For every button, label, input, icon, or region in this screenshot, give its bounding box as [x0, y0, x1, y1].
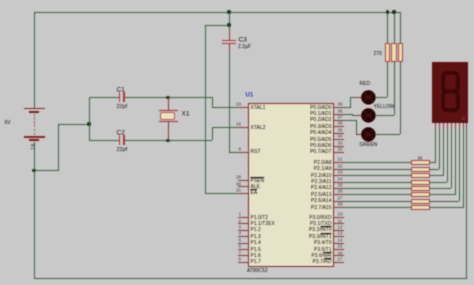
wire battery bottom [34, 142, 35, 171]
label YELLOW [374, 104, 395, 110]
junction R2 rail [392, 10, 395, 13]
label GREEN [360, 142, 378, 148]
LED lead stubs [0, 0, 1, 1]
label 6V [5, 120, 11, 126]
resistor R2 270 [391, 43, 396, 62]
wire battery to cap midpoint [34, 170, 58, 171]
label C2 value 22pf [117, 146, 128, 153]
junction cap midpoint [87, 122, 90, 125]
resistor RP4 1k [411, 180, 429, 185]
7-segment display pins [0, 0, 1, 1]
wire rail to R2 [394, 12, 395, 43]
label 270 [374, 51, 382, 57]
junction battery bottom [32, 169, 35, 172]
resistor RP7 1k [411, 199, 429, 204]
resistor RP3 1k [411, 173, 429, 178]
op-amp U1 AT89C52 body [248, 103, 334, 268]
resistor RP2 1k [411, 167, 429, 172]
junction crystal bottom [166, 139, 169, 142]
capacitor C3 [0, 0, 1, 1]
resistor RP8 1k [411, 205, 429, 210]
label C3 [239, 37, 247, 45]
U1 left pin stubs [0, 0, 1, 1]
wire C1 right [125, 97, 168, 98]
wire ground left rail [34, 171, 35, 278]
resistor RP5 1k [411, 186, 429, 191]
wire P0.2 to green LED [344, 120, 357, 121]
label AT89C52 [247, 268, 268, 274]
crystal X1 [0, 0, 1, 1]
wire segment staircase [0, 0, 1, 1]
resistor R3 270 [398, 43, 403, 62]
wire C1-C2 left vertical [89, 97, 90, 140]
U1 left pin numbers [0, 0, 1, 1]
junction C3 rail [227, 10, 230, 13]
wire C1 left [89, 97, 119, 98]
junction crystal top [166, 96, 169, 99]
label 1k [418, 155, 423, 161]
LED D2 YELLOW [361, 108, 376, 123]
wire C2 left [89, 140, 119, 141]
wire yellow LED to R2 [375, 115, 394, 116]
label C3 value [238, 44, 251, 50]
wire XTAL1 net [168, 97, 212, 98]
wire red LED to R1 [375, 97, 387, 98]
wire EA/VCC net [205, 25, 229, 26]
wire P2 bus to resistor pack [0, 0, 1, 1]
LED D1 RED [361, 90, 376, 105]
capacitor C2 [0, 0, 1, 1]
label C1 value 22pf [117, 104, 128, 111]
capacitor C1 [0, 0, 1, 1]
wire P0.0 to red LED [344, 107, 350, 108]
wire rail to R3 [400, 12, 401, 43]
junction R1 rail [386, 10, 389, 13]
wire P0.1 to yellow LED [344, 114, 352, 115]
wire VCC top rail [34, 12, 401, 13]
U1 right pin labels [0, 0, 1, 1]
U1 left pin labels [0, 0, 1, 1]
wire green LED to R3 [375, 134, 400, 135]
resistor RP6 1k [411, 192, 429, 197]
resistor RP1 1k [411, 160, 429, 165]
U1 right pin stubs [0, 0, 1, 1]
wire battery top to rail [34, 12, 35, 108]
U1 right pin numbers [0, 0, 1, 1]
wire common cathode to ground [466, 128, 467, 278]
resistor R1 270 [385, 43, 390, 62]
7-segment display body [432, 62, 469, 123]
label X1 [182, 111, 190, 119]
label U1 [246, 92, 254, 99]
junction EA branch [227, 23, 230, 26]
battery BAT 6V [0, 0, 1, 1]
wire rail to R1 [387, 12, 388, 43]
wire C3 vertical / RST net [229, 12, 230, 39]
label battery name rotated [29, 144, 35, 151]
wire XTAL2 net [168, 140, 212, 141]
LED D3 GREEN [361, 127, 376, 142]
wire C2 right [125, 140, 168, 141]
label C1 [117, 86, 125, 94]
label RED [360, 81, 371, 87]
wire ground bottom rail [34, 278, 467, 279]
label C2 [117, 129, 125, 137]
